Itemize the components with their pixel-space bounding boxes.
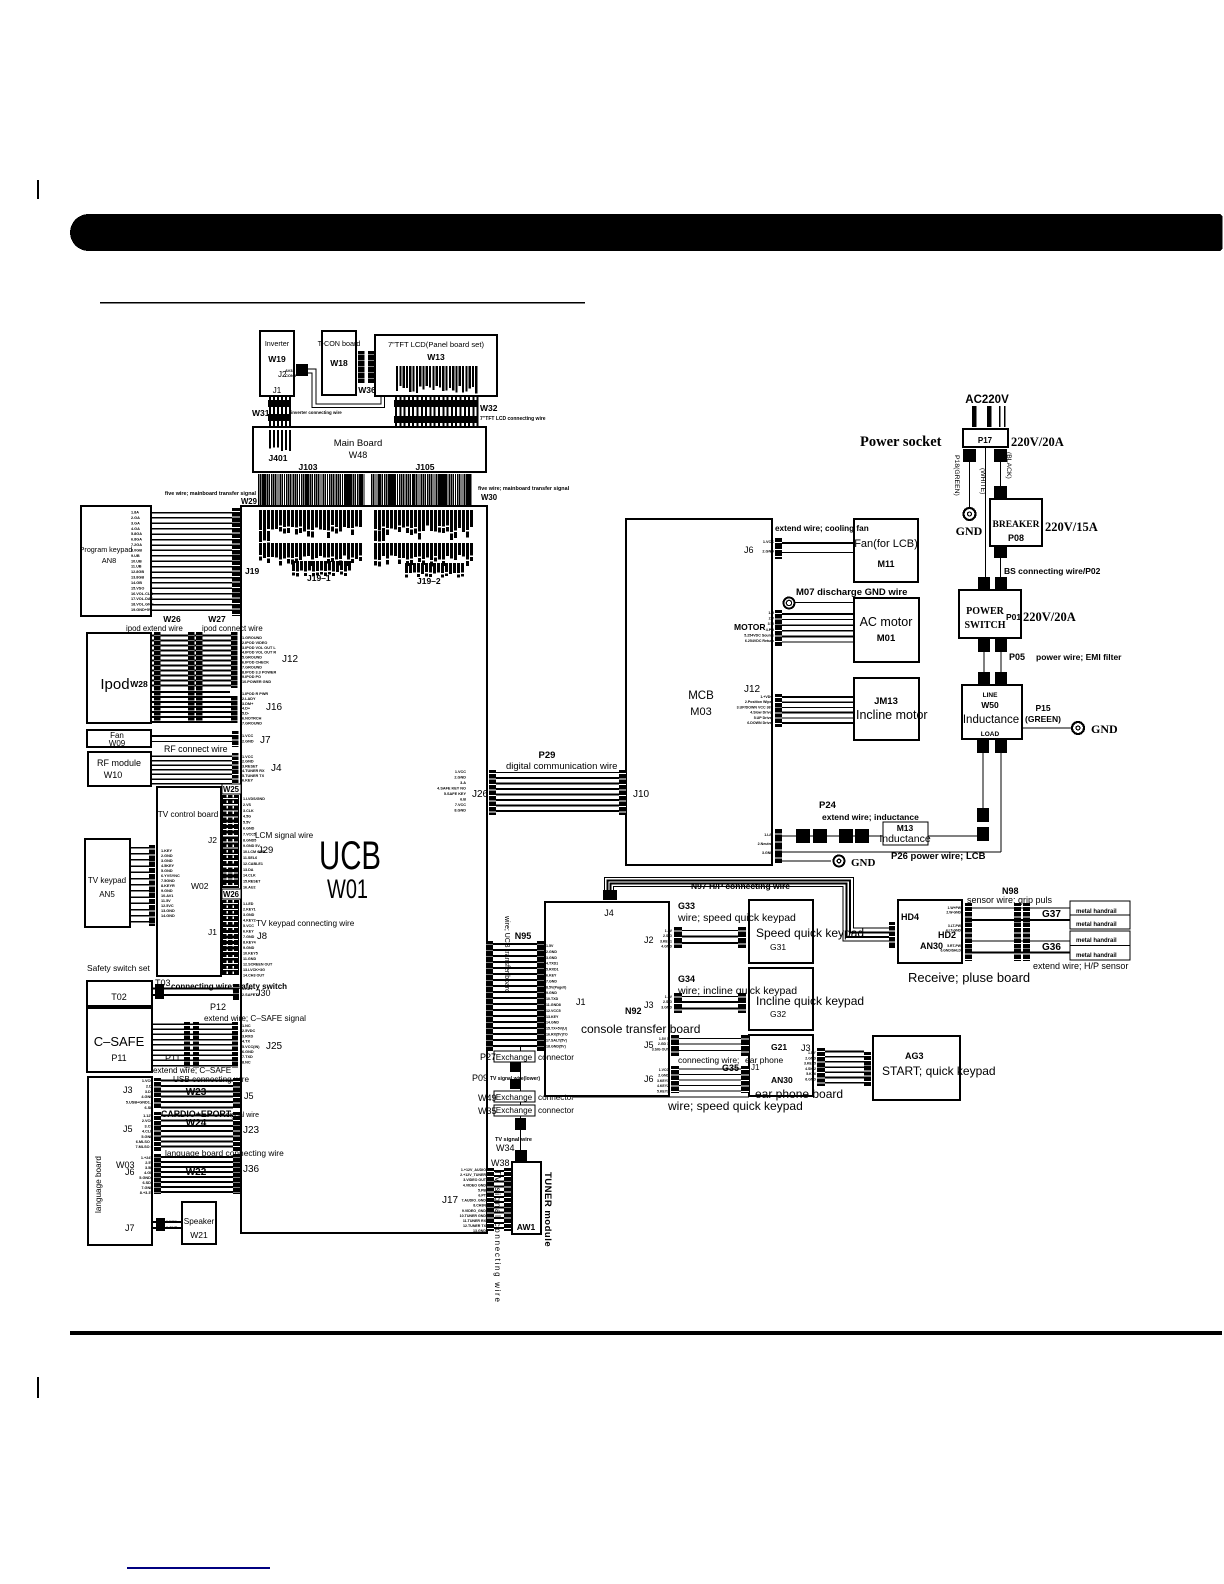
svg-text:2.GD 1: 2.GD 1 bbox=[658, 1042, 669, 1046]
svg-text:J1: J1 bbox=[208, 927, 217, 937]
svg-text:metal handrail: metal handrail bbox=[1076, 953, 1117, 959]
svg-text:8.GND: 8.GND bbox=[454, 809, 466, 813]
connector J25 bar bbox=[232, 1022, 238, 1068]
svg-text:18.VOL.GND: 18.VOL.GND bbox=[131, 603, 154, 607]
svg-text:P27: P27 bbox=[480, 1052, 496, 1062]
console transfer board N92 box bbox=[545, 902, 669, 1096]
plug blocks power switch bottom bbox=[978, 639, 990, 652]
svg-text:11.UB: 11.UB bbox=[131, 565, 142, 569]
connector J2 bar bbox=[674, 927, 682, 948]
Inductance W50 bbox=[962, 685, 1022, 739]
Main Board W48 bbox=[253, 427, 486, 472]
svg-text:W28: W28 bbox=[130, 679, 148, 689]
svg-text:J7: J7 bbox=[260, 735, 271, 746]
black wire socket to breaker bbox=[1000, 462, 1001, 487]
svg-text:P26 power wire; LCB: P26 power wire; LCB bbox=[891, 851, 986, 862]
sensor box G36 pair bbox=[1070, 931, 1130, 960]
svg-text:W50: W50 bbox=[981, 700, 999, 710]
svg-text:6.IPOD CHECK: 6.IPOD CHECK bbox=[242, 661, 269, 665]
MCB board M03 bbox=[626, 519, 772, 865]
svg-text:J12: J12 bbox=[744, 684, 761, 695]
svg-text:Program keypad: Program keypad bbox=[80, 545, 133, 554]
connector W26 ladder TV keypad bbox=[222, 900, 239, 975]
svg-text:G36: G36 bbox=[1042, 942, 1061, 953]
svg-text:8.+3.3V: 8.+3.3V bbox=[140, 1191, 154, 1195]
connector bar W26 mid bbox=[188, 632, 195, 723]
svg-text:extend wire; C–SAFE signal: extend wire; C–SAFE signal bbox=[204, 1014, 306, 1023]
svg-text:signal wire: signal wire bbox=[226, 1112, 259, 1119]
svg-text:5.GND: 5.GND bbox=[161, 869, 173, 873]
svg-text:Receive; pluse board: Receive; pluse board bbox=[908, 970, 1030, 985]
svg-text:AC motor: AC motor bbox=[860, 615, 913, 629]
svg-text:J401: J401 bbox=[269, 453, 288, 463]
svg-text:GND: GND bbox=[851, 857, 876, 869]
svg-text:6.GND: 6.GND bbox=[242, 1050, 254, 1054]
svg-text:3.GND: 3.GND bbox=[161, 859, 173, 863]
white wire socket to power switch bbox=[985, 447, 986, 577]
svg-text:W18: W18 bbox=[330, 358, 348, 368]
plug pins AC220V bbox=[972, 406, 977, 427]
svg-text:5.KEY3: 5.KEY3 bbox=[657, 1090, 669, 1094]
svg-text:J30: J30 bbox=[256, 988, 271, 998]
svg-text:Exchange: Exchange bbox=[496, 1053, 533, 1062]
connector J26 bar bbox=[489, 770, 496, 815]
svg-text:8.IPOD 3.3 POWER: 8.IPOD 3.3 POWER bbox=[242, 670, 276, 674]
svg-text:N97 H/P connecting wire: N97 H/P connecting wire bbox=[691, 881, 790, 891]
svg-text:J26: J26 bbox=[472, 789, 489, 800]
svg-text:M01: M01 bbox=[877, 633, 896, 644]
language board W03 bbox=[88, 1077, 152, 1245]
svg-text:1.VCC: 1.VCC bbox=[659, 1068, 670, 1072]
svg-text:5.GND: 5.GND bbox=[141, 1135, 153, 1139]
svg-text:TV signal connecting wire: TV signal connecting wire bbox=[493, 1170, 502, 1304]
svg-text:Incline quick keypad: Incline quick keypad bbox=[756, 994, 864, 1008]
svg-text:Exchange: Exchange bbox=[496, 1106, 533, 1115]
svg-text:M07 discharge GND wire: M07 discharge GND wire bbox=[796, 587, 907, 598]
svg-text:6.KEY: 6.KEY bbox=[242, 779, 253, 783]
svg-text:9.GND: 9.GND bbox=[546, 991, 557, 995]
svg-text:3.RESET: 3.RESET bbox=[242, 764, 259, 768]
svg-text:8.5V(Page0): 8.5V(Page0) bbox=[546, 985, 567, 989]
svg-text:2.GND: 2.GND bbox=[161, 854, 173, 858]
svg-text:5.254VDC Source: 5.254VDC Source bbox=[744, 633, 774, 637]
connector W36 bbox=[358, 351, 365, 383]
LCD pin name text block bbox=[396, 366, 398, 391]
connector W32 LCD connecting wire bbox=[395, 396, 397, 426]
wires W38 to tuner bbox=[494, 1170, 504, 1172]
svg-text:AN30: AN30 bbox=[771, 1075, 793, 1085]
svg-text:J17: J17 bbox=[442, 1195, 459, 1206]
svg-text:19.GND+5V: 19.GND+5V bbox=[131, 608, 152, 612]
svg-text:4.VIDEO GND: 4.VIDEO GND bbox=[463, 1183, 487, 1187]
svg-text:connector: connector bbox=[538, 1053, 574, 1062]
T-CON board W18 bbox=[322, 331, 356, 395]
svg-text:Inductance: Inductance bbox=[963, 714, 1019, 726]
svg-text:console transfer board: console transfer board bbox=[581, 1022, 700, 1036]
svg-text:2.GND: 2.GND bbox=[762, 550, 774, 554]
svg-text:6.B: 6.B bbox=[460, 798, 466, 802]
svg-text:4.GND: 4.GND bbox=[141, 1095, 153, 1099]
svg-text:4.TXD1: 4.TXD1 bbox=[546, 962, 558, 966]
connector bar speed keypad bbox=[738, 927, 746, 948]
svg-text:W23: W23 bbox=[186, 1087, 207, 1098]
svg-text:J5: J5 bbox=[123, 1124, 133, 1134]
svg-text:2.+12V_TUNER: 2.+12V_TUNER bbox=[460, 1173, 486, 1177]
wire M07 to AC motor bbox=[795, 602, 854, 603]
wire inductance to P24 squares bbox=[982, 753, 983, 808]
svg-text:J3: J3 bbox=[123, 1085, 133, 1095]
svg-text:7.GND: 7.GND bbox=[243, 935, 255, 939]
svg-text:J103: J103 bbox=[299, 462, 318, 472]
svg-text:Ipod: Ipod bbox=[100, 676, 129, 693]
svg-text:12.5VC: 12.5VC bbox=[161, 904, 174, 908]
svg-text:7.VCC: 7.VCC bbox=[455, 803, 466, 807]
wires G33 speed keypad bbox=[682, 930, 738, 931]
svg-text:7.5GND: 7.5GND bbox=[161, 879, 175, 883]
svg-text:4.D+: 4.D+ bbox=[242, 707, 251, 711]
svg-text:W02: W02 bbox=[191, 881, 209, 891]
BREAKER P08 bbox=[990, 499, 1042, 546]
svg-text:1.VCC: 1.VCC bbox=[763, 540, 774, 544]
svg-text:J4: J4 bbox=[604, 908, 614, 918]
wire MCB to GND ring bbox=[782, 860, 831, 861]
svg-text:1.KEY: 1.KEY bbox=[242, 987, 253, 991]
connector bars grip mid bbox=[1014, 903, 1021, 961]
connector block below W35 bbox=[515, 1118, 526, 1130]
svg-text:3.GND: 3.GND bbox=[762, 851, 773, 855]
svg-text:G32: G32 bbox=[770, 1009, 786, 1019]
svg-text:P01: P01 bbox=[1006, 612, 1021, 622]
svg-text:12.VCC5: 12.VCC5 bbox=[546, 1009, 561, 1013]
C-SAFE board P11 bbox=[87, 1008, 152, 1072]
svg-text:5.RT-PW: 5.RT-PW bbox=[947, 944, 962, 948]
svg-text:2.GND: 2.GND bbox=[658, 1073, 669, 1077]
svg-text:14.CH3 OUT: 14.CH3 OUT bbox=[243, 974, 265, 978]
svg-text:8.KEYR: 8.KEYR bbox=[161, 884, 175, 888]
connector bar W27 mid bbox=[196, 632, 203, 723]
svg-text:6.NOTRCH: 6.NOTRCH bbox=[242, 717, 262, 721]
label W26 boxed bbox=[222, 889, 241, 899]
black header bar bbox=[70, 214, 1223, 251]
connector bar C-SAFE mid 2 bbox=[193, 1022, 199, 1068]
svg-text:8.CH3N: 8.CH3N bbox=[473, 1204, 486, 1208]
svg-text:W36: W36 bbox=[358, 385, 376, 395]
svg-text:POWER: POWER bbox=[966, 606, 1005, 617]
svg-text:17.VOL.DAT: 17.VOL.DAT bbox=[131, 597, 153, 601]
svg-text:1.NC: 1.NC bbox=[242, 1024, 251, 1028]
wires program keypad to J19 bbox=[151, 512, 232, 514]
svg-text:8.KEY4: 8.KEY4 bbox=[243, 941, 257, 945]
connector block P09 bbox=[510, 1079, 521, 1089]
title underline bbox=[100, 302, 585, 304]
Fan W09 bbox=[87, 730, 151, 747]
svg-text:AN8: AN8 bbox=[102, 556, 116, 565]
svg-text:18.GND(5V): 18.GND(5V) bbox=[546, 1044, 567, 1048]
svg-text:1.VCC: 1.VCC bbox=[142, 1079, 153, 1083]
svg-text:2.W-GND: 2.W-GND bbox=[946, 911, 961, 915]
exchange chain vertical wire bbox=[520, 1047, 521, 1152]
svg-text:J6: J6 bbox=[644, 1074, 654, 1084]
svg-text:sensor wire; grip puls: sensor wire; grip puls bbox=[967, 895, 1053, 905]
connector J4 bar bbox=[232, 753, 239, 785]
svg-text:3.GND: 3.GND bbox=[661, 1005, 672, 1009]
svg-text:Inverter: Inverter bbox=[265, 339, 290, 348]
connector block P27 bbox=[510, 1062, 521, 1072]
svg-text:7.AUDIO_GND: 7.AUDIO_GND bbox=[461, 1199, 486, 1203]
svg-text:START; quick keypad: START; quick keypad bbox=[882, 1064, 996, 1078]
GND ring terminal MCB bbox=[834, 856, 845, 867]
connector MOTOR bar bbox=[775, 610, 782, 646]
plug block chain right lower bbox=[977, 827, 989, 841]
svg-text:Power socket: Power socket bbox=[860, 434, 942, 450]
Speed quick keypad G31 box bbox=[749, 900, 813, 963]
wires J6 group language bbox=[161, 1156, 233, 1158]
connector J3 bar bbox=[674, 993, 682, 1013]
svg-text:connector: connector bbox=[538, 1106, 574, 1115]
svg-text:T-CON board: T-CON board bbox=[318, 339, 361, 348]
UCB top pin text row J19-2 bbox=[374, 510, 377, 529]
svg-text:3.SIG OUT: 3.SIG OUT bbox=[652, 1047, 670, 1051]
svg-text:metal handrail: metal handrail bbox=[1076, 938, 1117, 944]
label W25 above TV board bbox=[222, 784, 241, 794]
svg-text:3.RXD: 3.RXD bbox=[242, 1034, 253, 1038]
connector bar incline keypad bbox=[738, 993, 746, 1013]
svg-text:7.GND: 7.GND bbox=[546, 979, 557, 983]
svg-text:J36: J36 bbox=[243, 1164, 260, 1175]
connector W25 ladder LCM bbox=[222, 795, 239, 888]
wire breaker to power switch bbox=[1000, 558, 1001, 577]
label W49 Exchange connector bbox=[494, 1091, 535, 1102]
svg-text:4.TX: 4.TX bbox=[242, 1040, 250, 1044]
svg-text:P29: P29 bbox=[539, 750, 556, 761]
connector J19 bar on UCB bbox=[232, 508, 240, 616]
svg-text:3.CS: 3.CS bbox=[145, 1124, 154, 1128]
connector J12/J16 bar on UCB bbox=[231, 632, 238, 723]
wires J5 ear phone bbox=[679, 1038, 741, 1039]
svg-text:1.5V′: 1.5V′ bbox=[808, 1051, 816, 1055]
svg-text:6.GND/SHLD: 6.GND/SHLD bbox=[940, 949, 961, 953]
J401 pin text bbox=[269, 430, 271, 449]
svg-text:P12: P12 bbox=[210, 1002, 226, 1012]
svg-text:W31: W31 bbox=[252, 408, 270, 418]
svg-text:2.VS: 2.VS bbox=[243, 803, 252, 807]
wire P26 power LCB bbox=[782, 851, 1001, 852]
svg-text:metal handrail: metal handrail bbox=[1076, 909, 1117, 915]
svg-text:11.5V: 11.5V bbox=[161, 899, 171, 903]
wires TV keypad to TV board bbox=[130, 847, 150, 849]
svg-text:2.GND: 2.GND bbox=[546, 950, 557, 954]
connector block W34 bbox=[515, 1150, 527, 1161]
svg-text:Main Board: Main Board bbox=[334, 438, 383, 449]
connector J7 bar bbox=[232, 731, 239, 747]
svg-text:1.VCC: 1.VCC bbox=[455, 770, 466, 774]
label W35 Exchange connector bbox=[494, 1105, 535, 1116]
svg-text:Speaker: Speaker bbox=[184, 1217, 215, 1226]
svg-text:9.GND: 9.GND bbox=[243, 946, 255, 950]
svg-text:extend wire; C–SAFE: extend wire; C–SAFE bbox=[153, 1066, 232, 1075]
wires cooling fan bbox=[782, 542, 854, 544]
plug block chain right upper bbox=[977, 808, 989, 822]
plug blocks inductance bottom bbox=[977, 739, 989, 753]
page margin tick top-left bbox=[37, 180, 39, 199]
svg-text:5.PB: 5.PB bbox=[478, 1188, 486, 1192]
ear phone board AN30 box bbox=[749, 1035, 813, 1096]
svg-text:TV keypad connecting wire: TV keypad connecting wire bbox=[256, 919, 355, 928]
svg-text:10.TUNER GND: 10.TUNER GND bbox=[460, 1214, 487, 1218]
svg-text:6.254VDC Return: 6.254VDC Return bbox=[745, 639, 774, 643]
svg-text:3.GND: 3.GND bbox=[546, 956, 557, 960]
svg-text:G35: G35 bbox=[722, 1063, 739, 1073]
svg-text:J1: J1 bbox=[751, 1063, 760, 1072]
svg-text:14.CLK: 14.CLK bbox=[243, 874, 256, 878]
svg-text:3.A: 3.A bbox=[460, 781, 466, 785]
POWER SWITCH P01 bbox=[959, 590, 1021, 638]
svg-text:RF connect wire: RF connect wire bbox=[164, 744, 228, 754]
svg-text:Safety switch set: Safety switch set bbox=[87, 963, 151, 973]
wires ear phone to START keypad bbox=[825, 1051, 864, 1053]
svg-text:J29: J29 bbox=[258, 845, 273, 856]
svg-text:8.NC: 8.NC bbox=[242, 1060, 251, 1064]
svg-text:220V/20A: 220V/20A bbox=[1023, 610, 1076, 624]
svg-text:7.GROUND: 7.GROUND bbox=[242, 721, 262, 725]
svg-text:W24: W24 bbox=[186, 1118, 207, 1129]
svg-text:7”TFT LCD connecting wire: 7”TFT LCD connecting wire bbox=[480, 416, 546, 422]
label P27 Exchange connector bbox=[494, 1051, 535, 1062]
svg-text:3.KEY5: 3.KEY5 bbox=[804, 1062, 816, 1066]
svg-text:13.GND: 13.GND bbox=[473, 1229, 486, 1233]
svg-text:7.MLSO L: 7.MLSO L bbox=[135, 1145, 153, 1149]
svg-text:3.GND: 3.GND bbox=[243, 913, 255, 917]
svg-text:CON5: CON5 bbox=[285, 373, 297, 378]
svg-text:Speed quick keypad: Speed quick keypad bbox=[756, 926, 864, 940]
svg-text:connector: connector bbox=[538, 1093, 574, 1102]
svg-text:ipod extend wire: ipod extend wire bbox=[126, 624, 183, 633]
svg-text:T02: T02 bbox=[111, 992, 127, 1002]
svg-text:11.GND8: 11.GND8 bbox=[546, 1003, 561, 1007]
svg-text:6.KEY: 6.KEY bbox=[546, 974, 557, 978]
svg-text:JM13: JM13 bbox=[874, 696, 898, 707]
svg-text:Fan(for LCB): Fan(for LCB) bbox=[854, 538, 918, 550]
speaker plug block bbox=[156, 1218, 165, 1231]
svg-text:16.AU2: 16.AU2 bbox=[243, 886, 256, 890]
svg-text:W10: W10 bbox=[104, 770, 123, 780]
svg-text:P08: P08 bbox=[1008, 533, 1024, 543]
plug block breaker top bbox=[994, 486, 1007, 499]
svg-text:2.SIG: 2.SIG bbox=[663, 1000, 672, 1004]
svg-text:5.D-: 5.D- bbox=[242, 712, 250, 716]
J2 plug block bbox=[296, 364, 308, 376]
wires G34 incline keypad bbox=[682, 996, 738, 997]
svg-text:Incline motor: Incline motor bbox=[856, 708, 928, 722]
svg-text:4.SIG2: 4.SIG2 bbox=[805, 1067, 816, 1071]
svg-text:1.+12V_AUDIO: 1.+12V_AUDIO bbox=[461, 1168, 486, 1172]
connector J12 bar MCB bbox=[775, 694, 782, 727]
svg-text:6.8GA: 6.8GA bbox=[131, 538, 142, 542]
footer rule bbox=[70, 1331, 1222, 1335]
wires incline motor bbox=[782, 696, 854, 698]
svg-text:1.+VDC: 1.+VDC bbox=[760, 695, 773, 699]
svg-text:2.KEY1: 2.KEY1 bbox=[243, 908, 256, 912]
Inductance M13 bbox=[883, 822, 928, 845]
svg-text:2.VCC: 2.VCC bbox=[142, 1119, 153, 1123]
svg-text:J5: J5 bbox=[244, 1091, 254, 1101]
MCB right connector bar P24 bbox=[775, 829, 782, 863]
svg-text:SWITCH: SWITCH bbox=[964, 620, 1005, 631]
svg-text:W30: W30 bbox=[481, 493, 498, 502]
svg-text:2.GND: 2.GND bbox=[242, 740, 254, 744]
svg-text:4.LT-GND: 4.LT-GND bbox=[946, 929, 962, 933]
svg-text:11.GND: 11.GND bbox=[243, 957, 256, 961]
language board bars bbox=[154, 1078, 161, 1109]
svg-text:3.5B: 3.5B bbox=[145, 1166, 153, 1170]
svg-text:2.LADY: 2.LADY bbox=[242, 697, 256, 701]
svg-text:AN5: AN5 bbox=[99, 890, 115, 899]
svg-text:12.SCREEN OUT: 12.SCREEN OUT bbox=[243, 963, 273, 967]
connector J30 bar bbox=[233, 984, 239, 1000]
svg-text:15.TX+5V(U): 15.TX+5V(U) bbox=[546, 1027, 568, 1031]
svg-text:6.DOWN Driver: 6.DOWN Driver bbox=[747, 721, 773, 725]
svg-text:4.5G: 4.5G bbox=[243, 815, 251, 819]
svg-text:4.PG: 4.PG bbox=[766, 628, 774, 632]
svg-text:J105: J105 bbox=[416, 462, 435, 472]
svg-text:16.RX(5V)TO: 16.RX(5V)TO bbox=[546, 1033, 568, 1037]
connector J6 bar console bbox=[671, 1066, 679, 1093]
svg-text:2.V: 2.V bbox=[769, 617, 775, 621]
green wire to GND bbox=[969, 462, 970, 508]
svg-text:G21: G21 bbox=[771, 1042, 787, 1052]
svg-text:W21: W21 bbox=[190, 1230, 208, 1240]
svg-text:AC220V: AC220V bbox=[965, 394, 1009, 406]
wire M13 to right chain bbox=[928, 835, 983, 836]
svg-text:1.L/N: 1.L/N bbox=[764, 833, 773, 837]
svg-text:17.SALT(5V): 17.SALT(5V) bbox=[546, 1038, 568, 1042]
svg-text:M03: M03 bbox=[690, 706, 711, 718]
svg-text:P18(GREEN): P18(GREEN) bbox=[953, 455, 960, 496]
T02 plug block bbox=[155, 984, 164, 999]
connector N95 bar on UCB bbox=[486, 941, 493, 1051]
svg-text:J19–2: J19–2 bbox=[417, 576, 441, 586]
wire inductance to P26 bbox=[1000, 753, 1001, 852]
svg-text:inverter connecting wire: inverter connecting wire bbox=[291, 410, 342, 415]
svg-text:6.SD2: 6.SD2 bbox=[142, 1181, 153, 1185]
svg-text:10.UB: 10.UB bbox=[131, 559, 142, 563]
svg-text:W26: W26 bbox=[163, 614, 181, 624]
plug blocks P24 bbox=[796, 829, 810, 843]
svg-text:15.VSO: 15.VSO bbox=[131, 586, 144, 590]
connector J10 bar bbox=[619, 770, 626, 815]
svg-text:13.LVCK+3G: 13.LVCK+3G bbox=[243, 968, 265, 972]
svg-text:P15: P15 bbox=[1035, 703, 1050, 713]
svg-text:(BLACK): (BLACK) bbox=[1005, 452, 1012, 479]
svg-text:4.KEY2: 4.KEY2 bbox=[657, 1084, 669, 1088]
Incline motor JM13 bbox=[854, 678, 919, 740]
svg-text:1.5V: 1.5V bbox=[665, 995, 673, 999]
svg-text:Exchange: Exchange bbox=[496, 1093, 533, 1102]
wires ipod ribbon J16 group bbox=[151, 691, 231, 693]
TUNER module AW1 bbox=[512, 1162, 541, 1234]
svg-text:language board connecting wire: language board connecting wire bbox=[165, 1148, 284, 1158]
wires N95 UCB to console board bbox=[493, 943, 537, 945]
bus W30 mainboard transfer signal (right half) bbox=[371, 474, 372, 505]
svg-text:3.DM+: 3.DM+ bbox=[242, 702, 254, 706]
wires J5 group CARDIO bbox=[161, 1115, 233, 1117]
svg-text:M13: M13 bbox=[897, 823, 914, 833]
svg-text:1.12V: 1.12V bbox=[143, 1114, 153, 1118]
svg-text:J19–1: J19–1 bbox=[307, 573, 331, 583]
svg-text:13.8GB: 13.8GB bbox=[131, 576, 144, 580]
ring terminal M07 bbox=[784, 598, 795, 609]
svg-text:J7: J7 bbox=[125, 1223, 135, 1233]
